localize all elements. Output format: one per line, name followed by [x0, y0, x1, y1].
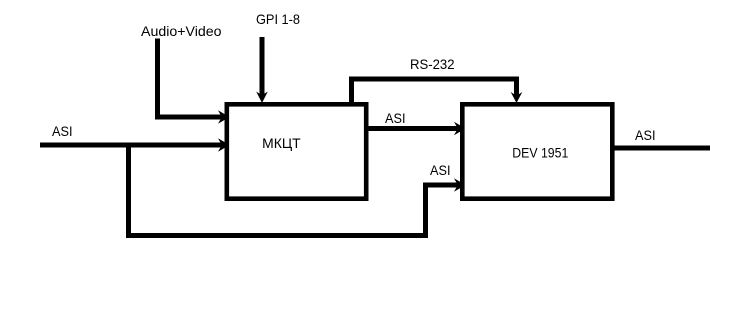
wire ASI input horizontal	[40, 143, 223, 148]
svg-text:Audio+Video: Audio+Video	[141, 23, 222, 39]
wire ASI output	[614, 146, 710, 151]
arrowhead ASI feedback into DEV left	[454, 178, 466, 192]
svg-text:RS-232: RS-232	[410, 56, 455, 72]
arrowhead RS-232 into DEV top	[511, 92, 523, 103]
wire Audio+Video elbow	[158, 39, 223, 118]
arrowhead Audio+Video into МКЦТ left	[218, 110, 230, 124]
wire RS-232 over the top	[352, 79, 517, 102]
block DEV 1951	[462, 104, 612, 198]
arrowhead ASI input into МКЦТ left	[218, 138, 230, 152]
svg-text:ASI: ASI	[385, 110, 406, 126]
svg-text:ASI: ASI	[430, 162, 451, 178]
arrowhead ASI into DEV left	[454, 122, 466, 136]
svg-text:GPI 1-8: GPI 1-8	[256, 11, 300, 27]
arrowhead GPI into МКЦТ top	[256, 92, 268, 104]
svg-text:МКЦТ: МКЦТ	[262, 135, 301, 151]
wire feedback branch down, along bottom, up into DEV	[129, 145, 459, 236]
block МКЦТ	[227, 104, 366, 198]
svg-text:ASI: ASI	[635, 127, 656, 143]
wire GPI vertical	[260, 37, 265, 96]
svg-text:DEV 1951: DEV 1951	[512, 145, 568, 161]
wire ASI between boxes	[366, 126, 459, 131]
svg-text:ASI: ASI	[52, 123, 73, 139]
